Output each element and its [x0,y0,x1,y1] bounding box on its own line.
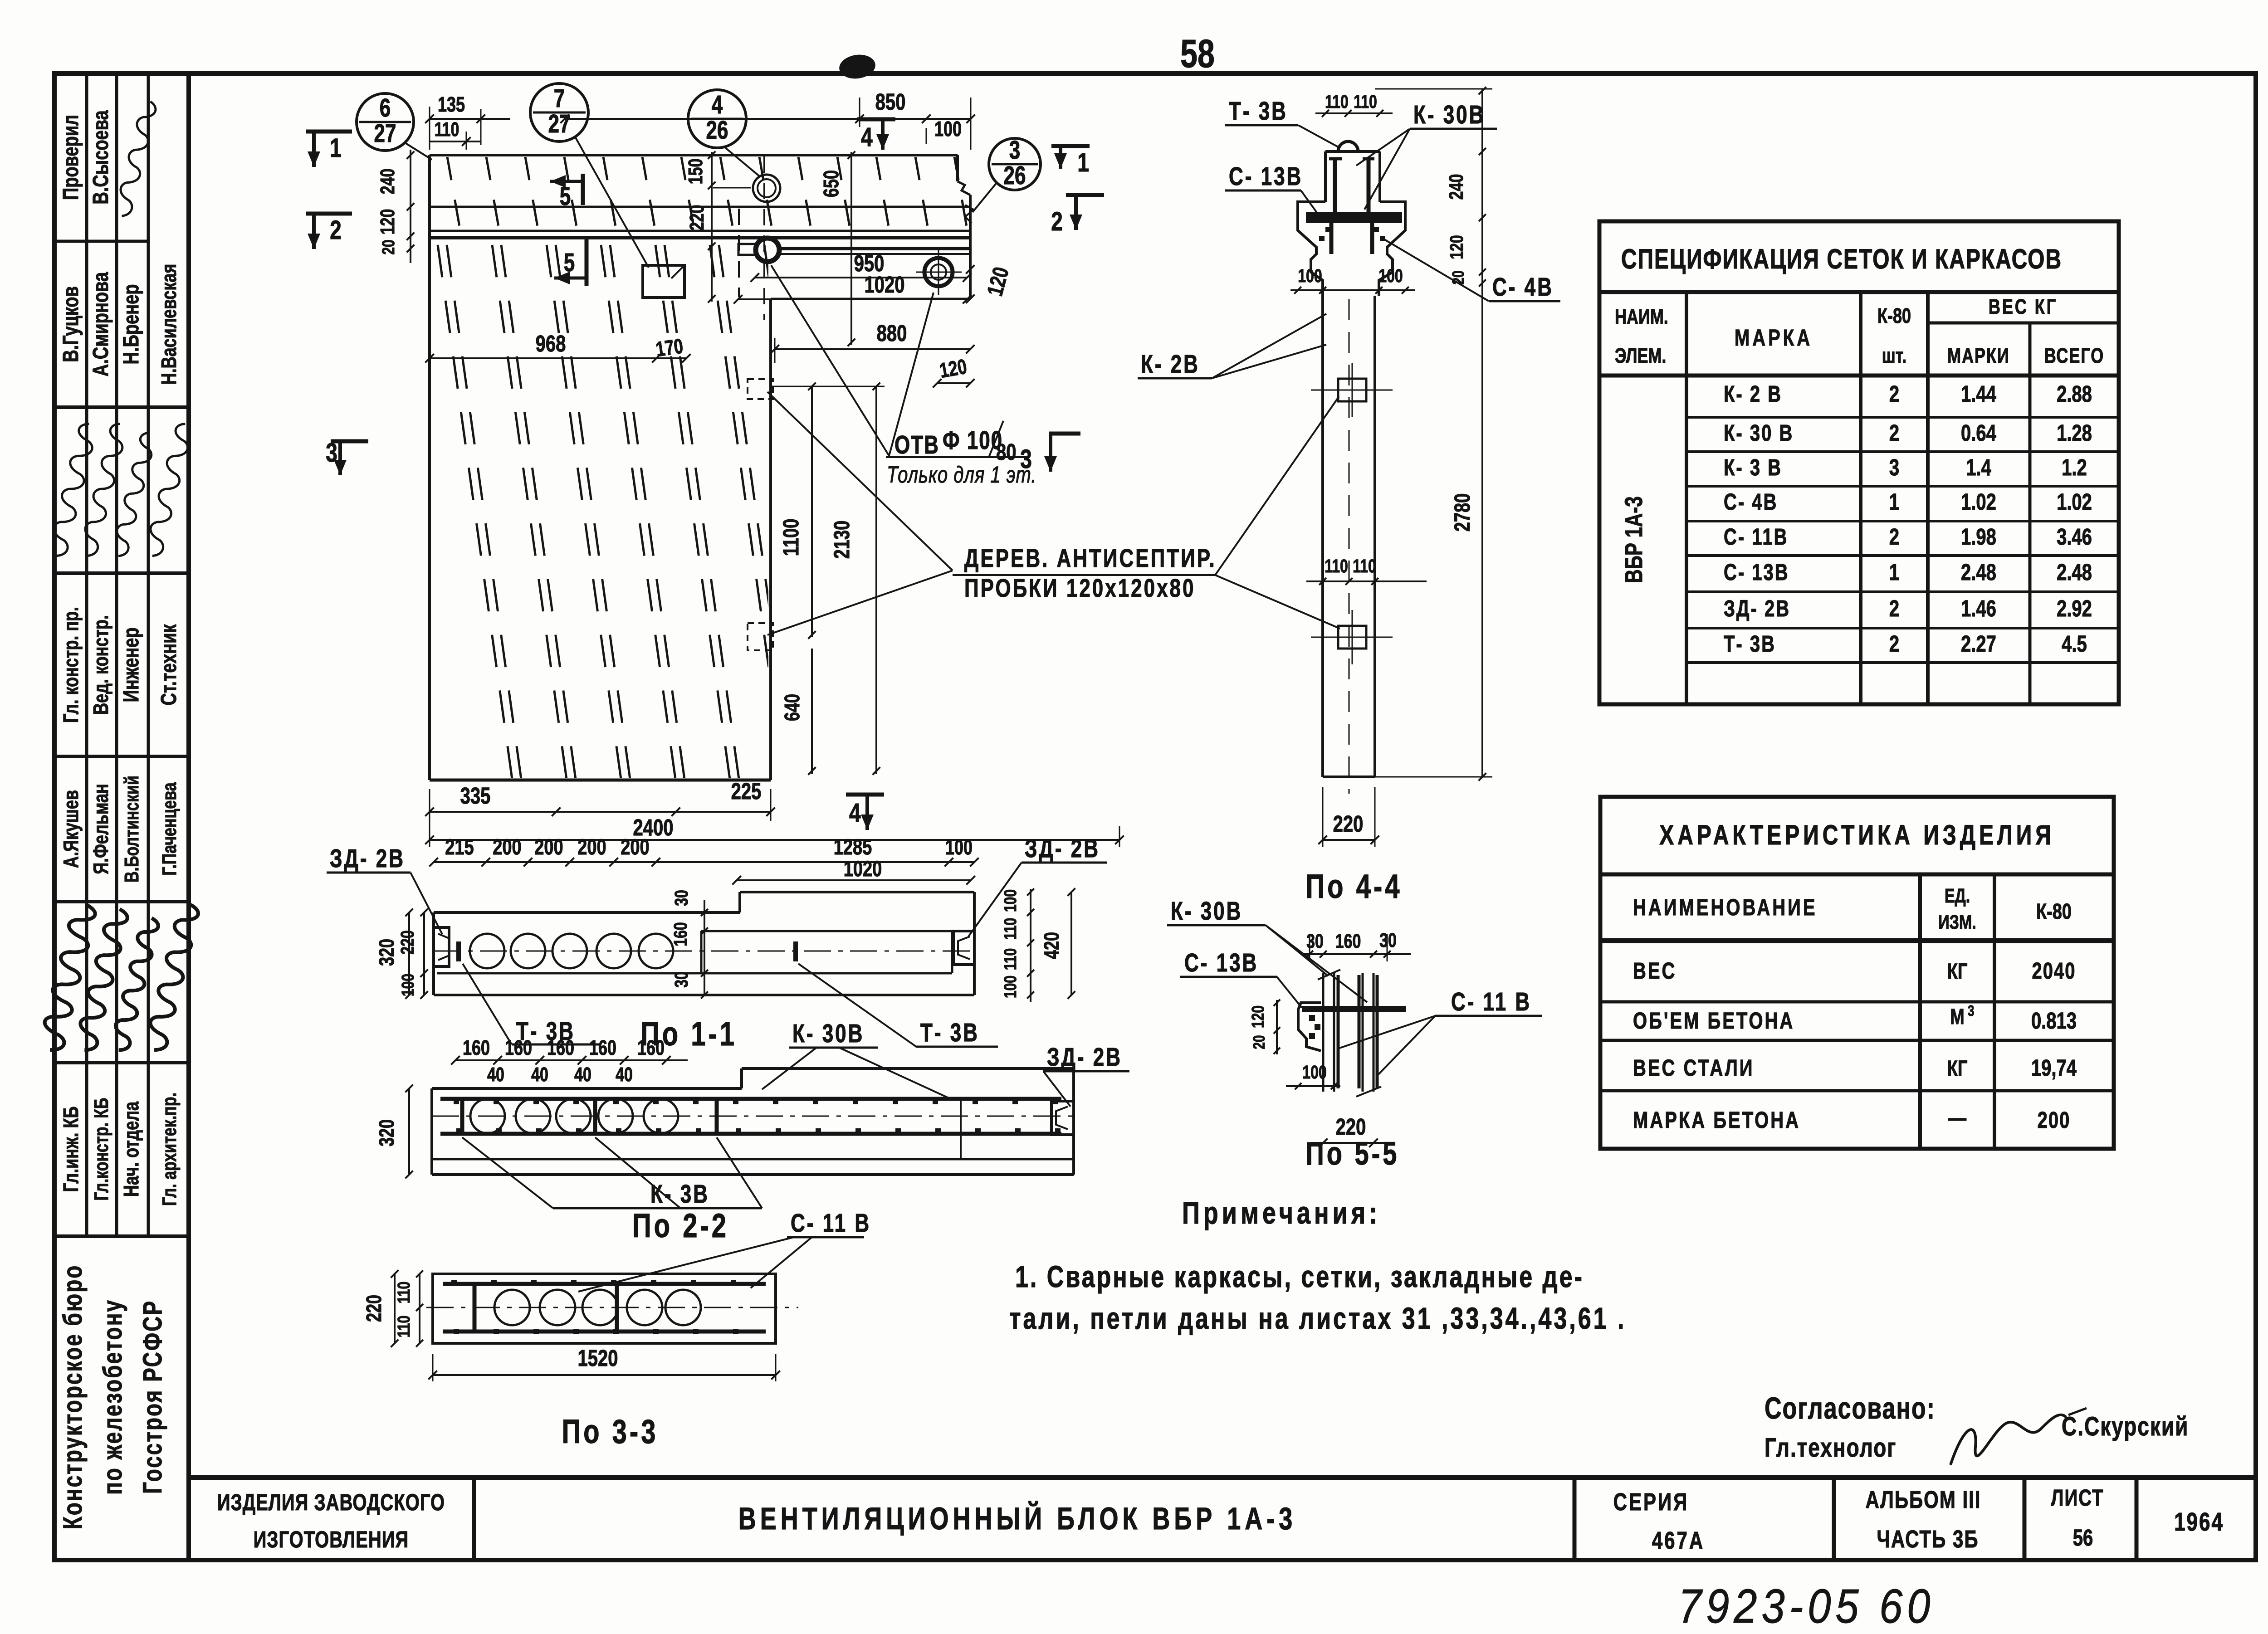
svg-text:110: 110 [1353,556,1376,576]
svg-text:К- 3 В: К- 3 В [1724,454,1782,480]
svg-text:26: 26 [706,116,728,145]
svg-text:К- 30В: К- 30В [1413,100,1485,129]
svg-text:—: — [1948,1104,1966,1131]
svg-text:Согласовано:: Согласовано: [1765,1391,1936,1425]
svg-text:ЗД- 2В: ЗД- 2В [1724,595,1790,621]
svg-text:1520: 1520 [578,1345,618,1371]
svg-text:240: 240 [1446,174,1467,200]
svg-text:ИЗМ.: ИЗМ. [1938,912,1976,933]
svg-text:Гл.инж. КБ: Гл.инж. КБ [59,1107,83,1192]
svg-text:По 3-3: По 3-3 [562,1413,658,1450]
svg-text:40: 40 [616,1064,633,1086]
svg-text:120: 120 [1446,235,1467,259]
svg-text:40: 40 [487,1064,504,1086]
svg-text:215: 215 [445,835,474,860]
svg-text:Г.Паченцева: Г.Паченцева [159,782,181,876]
svg-text:ВЕС: ВЕС [1633,957,1677,984]
svg-text:АЛЬБОМ III: АЛЬБОМ III [1866,1486,1981,1513]
svg-text:30: 30 [671,890,692,906]
svg-text:2: 2 [1889,523,1899,550]
svg-text:По 4-4: По 4-4 [1305,868,1402,905]
svg-text:К-80: К-80 [1877,304,1911,327]
svg-text:320: 320 [375,939,398,966]
svg-text:2.92: 2.92 [2057,595,2092,621]
svg-text:по железобетону: по железобетону [98,1299,128,1495]
svg-text:7923-05 60: 7923-05 60 [1678,1580,1935,1633]
svg-text:А.Смирнова: А.Смирнова [88,272,113,376]
svg-text:1. Сварные каркасы, сетки, за: 1. Сварные каркасы, сетки, закладные де- [1015,1260,1584,1294]
svg-text:2130: 2130 [830,521,855,559]
svg-text:0.64: 0.64 [1961,419,1996,446]
svg-text:ЭЛЕМ.: ЭЛЕМ. [1615,344,1666,367]
svg-text:МАРКА БЕТОНА: МАРКА БЕТОНА [1633,1107,1800,1133]
svg-text:220: 220 [397,930,418,954]
svg-text:200: 200 [577,835,606,860]
svg-text:2: 2 [330,215,342,245]
svg-text:К- 30В: К- 30В [1171,897,1242,926]
svg-text:100: 100 [934,117,962,141]
svg-text:С- 4В: С- 4В [1724,488,1778,515]
svg-text:КГ: КГ [1947,959,1968,984]
svg-text:ЗД- 2В: ЗД- 2В [1047,1043,1122,1072]
svg-text:1020: 1020 [844,857,882,882]
svg-text:100: 100 [1298,265,1322,286]
svg-text:С- 13В: С- 13В [1184,948,1258,977]
svg-text:ИЗДЕЛИЯ ЗАВОДСКОГО: ИЗДЕЛИЯ ЗАВОДСКОГО [217,1489,445,1515]
svg-text:100: 100 [1302,1062,1326,1083]
svg-text:100: 100 [945,836,973,859]
svg-text:160: 160 [589,1036,616,1059]
svg-text:120: 120 [938,355,968,382]
svg-text:В.Гуцков: В.Гуцков [59,286,83,362]
svg-text:М: М [1950,1005,1965,1029]
svg-text:27: 27 [374,119,396,148]
svg-text:3: 3 [1009,136,1020,165]
svg-text:СПЕЦИФИКАЦИЯ СЕТОК И КАРКАСОВ: СПЕЦИФИКАЦИЯ СЕТОК И КАРКАСОВ [1621,243,2062,274]
svg-text:225: 225 [731,778,762,804]
svg-text:2780: 2780 [1450,493,1475,532]
svg-text:200: 200 [2038,1107,2071,1133]
svg-text:30: 30 [671,971,692,988]
svg-text:20: 20 [379,239,398,254]
svg-text:2: 2 [1889,419,1899,446]
svg-text:1.2: 1.2 [2062,454,2087,480]
svg-text:120: 120 [982,264,1014,298]
svg-text:4: 4 [861,122,873,152]
svg-text:1: 1 [1077,148,1089,178]
svg-text:2.88: 2.88 [2057,380,2092,407]
svg-text:1285: 1285 [834,835,872,860]
svg-text:ХАРАКТЕРИСТИКА ИЗДЕЛИЯ: ХАРАКТЕРИСТИКА ИЗДЕЛИЯ [1659,819,2054,850]
svg-text:170: 170 [655,334,685,361]
svg-text:160: 160 [547,1036,574,1059]
svg-text:Примечания:: Примечания: [1182,1196,1381,1231]
svg-text:640: 640 [781,694,804,721]
svg-text:3.46: 3.46 [2057,523,2092,550]
svg-text:МАРКИ: МАРКИ [1947,344,2010,367]
svg-text:1: 1 [1889,488,1899,515]
svg-text:КГ: КГ [1947,1056,1968,1081]
svg-text:220: 220 [686,205,708,231]
svg-text:шт.: шт. [1882,344,1906,367]
svg-text:7: 7 [554,84,565,113]
svg-text:А.Якушев: А.Якушев [59,790,83,868]
svg-text:850: 850 [875,88,906,115]
svg-text:1.4: 1.4 [1966,454,1991,480]
svg-text:100: 100 [1001,976,1020,998]
svg-text:56: 56 [2073,1524,2093,1551]
svg-text:150: 150 [685,159,707,185]
svg-text:Только для 1 эт.: Только для 1 эт. [887,461,1036,488]
svg-text:2: 2 [1889,595,1899,621]
svg-text:650: 650 [820,170,843,197]
svg-text:880: 880 [877,320,907,346]
svg-text:С- 11 В: С- 11 В [791,1209,871,1238]
svg-text:С- 13В: С- 13В [1724,559,1789,585]
svg-text:1020: 1020 [865,271,905,298]
svg-text:1.02: 1.02 [2057,488,2092,515]
svg-text:110: 110 [1001,918,1020,940]
svg-text:3: 3 [326,438,337,468]
svg-text:20: 20 [1250,1035,1268,1049]
svg-text:С- 11 В: С- 11 В [1451,987,1531,1016]
svg-text:ВЕС СТАЛИ: ВЕС СТАЛИ [1633,1054,1755,1081]
svg-text:160: 160 [637,1036,665,1059]
svg-text:1: 1 [1889,559,1899,585]
svg-text:220: 220 [1333,810,1364,837]
svg-text:3: 3 [1889,454,1899,480]
svg-text:3: 3 [1968,1003,1974,1019]
svg-text:ВЕНТИЛЯЦИОННЫЙ БЛОК ВБР 1А-: ВЕНТИЛЯЦИОННЫЙ БЛОК ВБР 1А-3 [738,1500,1297,1536]
svg-text:0.813: 0.813 [2031,1007,2077,1034]
svg-text:ДЕРЕВ. АНТИСЕПТИР.: ДЕРЕВ. АНТИСЕПТИР. [964,544,1217,573]
svg-text:2.27: 2.27 [1961,630,1996,657]
svg-text:2.48: 2.48 [1961,559,1996,585]
svg-text:Гл.констр. КБ: Гл.констр. КБ [91,1098,112,1201]
svg-text:В.Сысоева: В.Сысоева [88,110,113,205]
svg-text:200: 200 [534,835,563,860]
svg-text:4: 4 [712,90,723,119]
svg-text:К- 30В: К- 30В [792,1019,864,1048]
svg-text:110: 110 [1354,91,1377,112]
svg-text:Ст.техник: Ст.техник [156,624,181,705]
svg-text:110: 110 [1001,948,1020,970]
svg-text:1.02: 1.02 [1961,488,1996,515]
svg-text:110: 110 [1325,556,1348,576]
svg-text:335: 335 [460,782,491,809]
svg-text:Т- 3В: Т- 3В [1724,630,1776,657]
svg-text:С.Скурский: С.Скурский [2062,1412,2189,1442]
svg-text:ОТВ: ОТВ [894,430,939,459]
svg-text:ВЕС КГ: ВЕС КГ [1989,295,2058,318]
svg-text:НАИМ.: НАИМ. [1615,305,1668,328]
svg-text:С- 11В: С- 11В [1724,523,1788,550]
svg-text:58: 58 [1180,31,1215,76]
svg-text:ЗД- 2В: ЗД- 2В [1025,834,1100,863]
svg-text:Т- 3В: Т- 3В [1229,97,1288,126]
svg-text:Госстроя РСФСР: Госстроя РСФСР [138,1300,168,1494]
svg-text:Нач. отдела: Нач. отдела [120,1101,143,1197]
svg-text:ВБР 1А-3: ВБР 1А-3 [1620,496,1647,583]
svg-text:160: 160 [505,1036,532,1059]
svg-text:ВСЕГО: ВСЕГО [2044,344,2105,367]
svg-text:4.5: 4.5 [2062,630,2087,657]
svg-text:135: 135 [438,93,465,116]
svg-text:27: 27 [548,109,571,138]
svg-text:1: 1 [330,133,342,163]
svg-text:320: 320 [375,1119,398,1146]
svg-text:К- 30 В: К- 30 В [1724,419,1794,446]
svg-text:2.48: 2.48 [2057,559,2092,585]
svg-text:К- 2 В: К- 2 В [1724,380,1782,407]
svg-text:Я.Фельман: Я.Фельман [89,784,112,874]
svg-text:110: 110 [435,119,459,141]
svg-text:ИЗГОТОВЛЕНИЯ: ИЗГОТОВЛЕНИЯ [254,1526,409,1552]
svg-text:1.28: 1.28 [2057,419,2092,446]
svg-text:110: 110 [395,1282,414,1303]
svg-text:1964: 1964 [2174,1507,2224,1536]
svg-text:19,74: 19,74 [2031,1054,2077,1081]
svg-text:6: 6 [380,93,391,122]
svg-text:К- 2В: К- 2В [1141,350,1200,379]
svg-text:В.Болтинский: В.Болтинский [121,776,143,883]
svg-text:4: 4 [849,798,861,828]
svg-text:40: 40 [574,1064,591,1086]
svg-text:тали, петли даны на листах 31: тали, петли даны на листах 31 ,33,34.,43… [1009,1302,1626,1336]
svg-text:К-80: К-80 [2036,899,2072,924]
svg-text:5: 5 [564,248,575,277]
svg-text:Проверил: Проверил [59,115,83,200]
svg-text:100: 100 [399,974,418,996]
svg-text:110: 110 [395,1316,414,1337]
svg-text:160: 160 [670,922,691,946]
svg-text:5: 5 [560,182,571,211]
svg-text:1.44: 1.44 [1961,380,1996,407]
svg-text:ЗД- 2В: ЗД- 2В [330,844,405,873]
svg-text:Гл. констр. пр.: Гл. констр. пр. [59,607,83,723]
svg-text:120: 120 [377,209,399,235]
svg-text:2: 2 [1889,380,1899,407]
svg-text:Гл.технолог: Гл.технолог [1765,1433,1897,1463]
svg-text:Конструкторское бюро: Конструкторское бюро [58,1264,88,1530]
svg-text:100: 100 [1001,889,1020,912]
svg-text:2: 2 [1889,630,1899,657]
svg-text:ЧАСТЬ 3Б: ЧАСТЬ 3Б [1877,1526,1979,1553]
svg-text:30: 30 [1379,930,1397,951]
svg-text:МАРКА: МАРКА [1735,324,1813,351]
svg-text:ПРОБКИ 120х120х80: ПРОБКИ 120х120х80 [964,574,1195,603]
svg-text:110: 110 [1325,91,1349,112]
svg-text:1.98: 1.98 [1961,523,1996,550]
svg-text:СЕРИЯ: СЕРИЯ [1613,1488,1689,1516]
svg-text:ОБ'ЕМ БЕТОНА: ОБ'ЕМ БЕТОНА [1633,1007,1794,1034]
svg-text:ЛИСТ: ЛИСТ [2051,1484,2104,1511]
svg-text:200: 200 [493,835,521,860]
svg-text:Ф 100: Ф 100 [943,426,1003,455]
svg-text:2040: 2040 [2032,957,2076,984]
svg-text:120: 120 [1249,1005,1268,1028]
svg-text:1.46: 1.46 [1961,595,1996,621]
svg-text:К- 3В: К- 3В [650,1180,709,1209]
svg-text:НАИМЕНОВАНИЕ: НАИМЕНОВАНИЕ [1633,894,1818,920]
svg-text:2: 2 [1051,207,1063,237]
svg-text:Вед. констр.: Вед. констр. [89,615,112,715]
svg-text:С- 13В: С- 13В [1229,162,1303,191]
svg-text:1100: 1100 [779,519,804,556]
svg-text:240: 240 [377,169,399,195]
svg-text:160: 160 [463,1036,490,1059]
svg-text:420: 420 [1040,932,1063,959]
svg-text:Н.Бренер: Н.Бренер [119,284,144,365]
svg-text:Инженер: Инженер [119,627,144,702]
svg-text:По 5-5: По 5-5 [1306,1135,1400,1171]
svg-text:Гл. архитек.пр.: Гл. архитек.пр. [159,1093,181,1206]
svg-text:Н.Василевская: Н.Василевская [157,264,181,385]
svg-text:26: 26 [1004,161,1026,190]
svg-text:40: 40 [531,1064,548,1086]
svg-text:ЕД.: ЕД. [1945,885,1970,907]
svg-text:160: 160 [1335,931,1361,952]
svg-text:Т- 3В: Т- 3В [920,1018,979,1047]
svg-text:467А: 467А [1652,1527,1705,1554]
svg-text:По 2-2: По 2-2 [632,1207,729,1244]
svg-text:220: 220 [362,1295,386,1322]
svg-text:100: 100 [1378,265,1403,286]
svg-text:968: 968 [536,330,566,356]
svg-text:200: 200 [621,835,649,860]
svg-text:С- 4В: С- 4В [1492,273,1554,302]
